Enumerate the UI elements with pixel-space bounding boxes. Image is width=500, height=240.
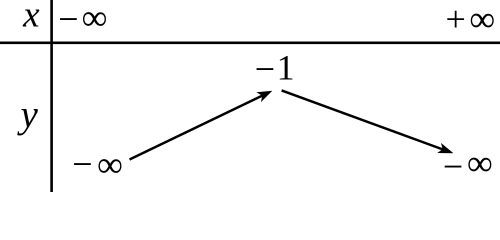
svg-text:1: 1 bbox=[277, 48, 295, 88]
svg-text:∞: ∞ bbox=[469, 0, 495, 39]
svg-text:−: − bbox=[58, 0, 78, 39]
svg-text:∞: ∞ bbox=[82, 0, 108, 38]
svg-text:∞: ∞ bbox=[467, 143, 493, 183]
svg-text:+: + bbox=[445, 0, 465, 39]
svg-text:∞: ∞ bbox=[97, 144, 123, 184]
svg-text:y: y bbox=[17, 93, 39, 136]
svg-text:−: − bbox=[255, 49, 275, 89]
svg-text:−: − bbox=[72, 144, 92, 184]
svg-text:x: x bbox=[22, 0, 40, 36]
